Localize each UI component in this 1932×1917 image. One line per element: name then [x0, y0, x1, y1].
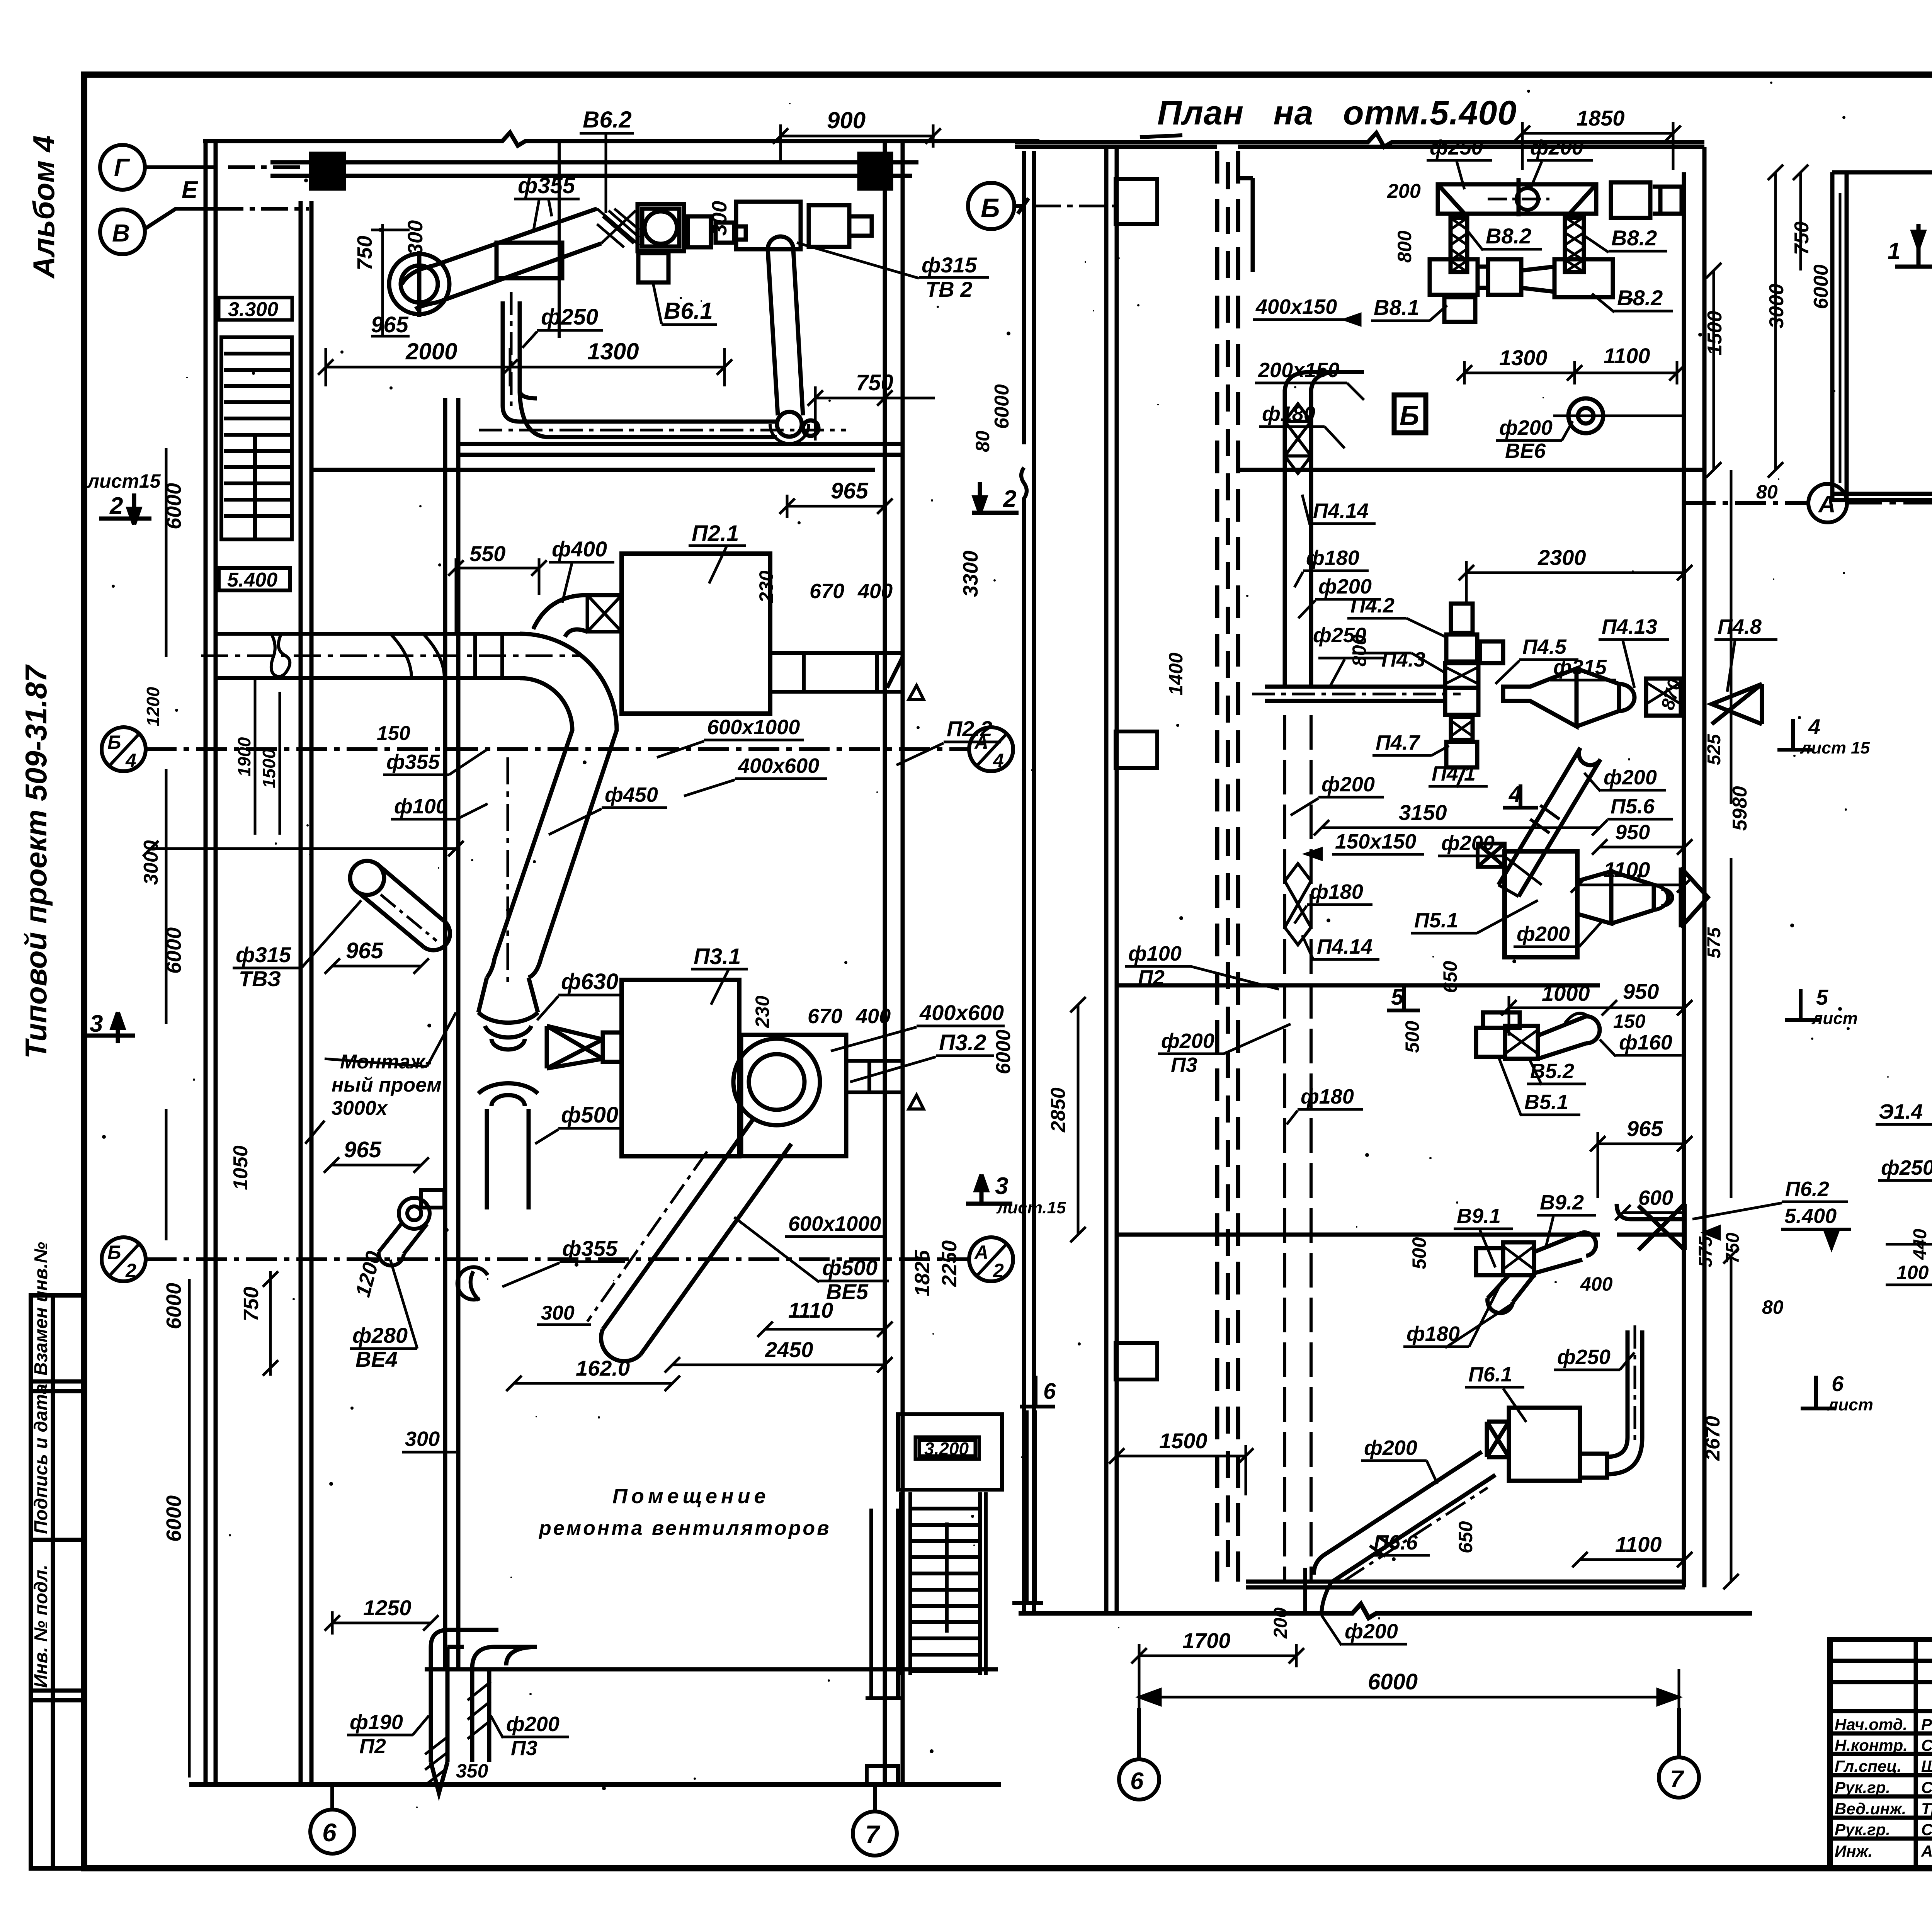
svg-text:В6.2: В6.2 — [583, 107, 632, 133]
small fan f355 crossed — [457, 1267, 488, 1300]
svg-text:2: 2 — [993, 1260, 1004, 1281]
left stamp strip boxes — [31, 1295, 84, 1868]
svg-text:150х150: 150х150 — [1335, 830, 1416, 853]
interior walls — [1238, 468, 1704, 472]
svg-text:ф280: ф280 — [352, 1323, 408, 1347]
duct segment П3 east to wall — [846, 1061, 923, 1109]
column Г2 — [859, 154, 891, 189]
svg-text:П4.7: П4.7 — [1376, 731, 1421, 754]
svg-text:Гл.спец.: Гл.спец. — [1835, 1757, 1901, 1775]
flexible connector crosshatch — [597, 209, 639, 247]
svg-text:6: 6 — [1043, 1379, 1056, 1404]
elevation box 5.400 — [219, 568, 290, 590]
riser П3 — [468, 1647, 537, 1762]
svg-text:ВЕ4: ВЕ4 — [355, 1347, 398, 1371]
svg-text:400: 400 — [855, 1005, 891, 1028]
svg-text:ф400: ф400 — [552, 537, 607, 561]
svg-text:В6.1: В6.1 — [664, 298, 713, 324]
svg-text:162.0: 162.0 — [576, 1356, 630, 1380]
П3.2 fan — [587, 1035, 846, 1361]
svg-text:ф200: ф200 — [1517, 922, 1570, 946]
svg-text:Б: Б — [981, 193, 1000, 223]
svg-text:3.200: 3.200 — [924, 1439, 969, 1459]
diagonal duct f200 — [1314, 1452, 1495, 1582]
svg-text:6000: 6000 — [162, 1283, 185, 1329]
main title block outer — [1830, 1640, 1932, 1868]
svg-text:ф160: ф160 — [1619, 1031, 1672, 1054]
svg-text:Типовой проект 509-31.87: Типовой проект 509-31.87 — [19, 664, 53, 1059]
П3.1 unit — [622, 980, 739, 1156]
svg-text:Вед.инж.: Вед.инж. — [1835, 1800, 1906, 1818]
corner detail — [1611, 182, 1650, 218]
left edge — [1845, 172, 1849, 500]
svg-text:П6.1: П6.1 — [1468, 1363, 1512, 1386]
svg-text:2300: 2300 — [1537, 545, 1586, 570]
svg-text:4: 4 — [1808, 714, 1820, 739]
svg-text:400х600: 400х600 — [738, 754, 819, 777]
svg-text:800: 800 — [1394, 230, 1415, 263]
svg-text:лист.15: лист.15 — [996, 1198, 1066, 1217]
svg-text:ф250: ф250 — [1881, 1156, 1932, 1179]
room wall — [425, 1667, 998, 1672]
svg-text:ф250: ф250 — [1557, 1345, 1611, 1369]
П6.2 funnel — [1617, 1204, 1719, 1250]
svg-text:ф450: ф450 — [605, 783, 658, 806]
corridor dashed wall — [1215, 151, 1219, 1582]
svg-text:ТВ 2: ТВ 2 — [925, 277, 972, 301]
svg-text:ф180: ф180 — [1306, 546, 1359, 570]
П5.6 diagonal duct — [1498, 748, 1600, 896]
gallery wall between buildings — [1021, 151, 1034, 1613]
svg-text:2250: 2250 — [938, 1240, 961, 1287]
column Г1 — [311, 154, 344, 189]
svg-text:ф250: ф250 — [1430, 136, 1483, 159]
svg-text:575: 575 — [1704, 927, 1725, 958]
П4.14 hatch — [1285, 421, 1311, 456]
axis А/2 bubble — [969, 1237, 1013, 1281]
svg-text:ф315: ф315 — [236, 942, 291, 967]
svg-text:2: 2 — [125, 1260, 136, 1281]
svg-text:750: 750 — [353, 236, 376, 270]
svg-text:ф200: ф200 — [1364, 1436, 1417, 1459]
svg-text:6000: 6000 — [162, 1495, 185, 1542]
svg-text:ф250: ф250 — [541, 304, 598, 330]
intake funnel — [1487, 1422, 1509, 1457]
axis Б/2 bubble — [102, 1237, 146, 1281]
svg-text:350: 350 — [456, 1760, 488, 1782]
svg-text:6000: 6000 — [991, 384, 1013, 429]
svg-text:7: 7 — [865, 1820, 881, 1849]
svg-text:Помещение: Помещение — [612, 1485, 770, 1508]
svg-text:965: 965 — [346, 938, 384, 963]
svg-text:Слободяник: Слободяник — [1921, 1778, 1932, 1796]
svg-text:Слободяник: Слободяник — [1921, 1820, 1932, 1839]
svg-text:300: 300 — [404, 220, 427, 255]
svg-text:П4.1: П4.1 — [1432, 762, 1476, 785]
svg-text:П2.1: П2.1 — [692, 521, 739, 546]
section marks 1 — [1895, 224, 1932, 267]
svg-text:Б: Б — [107, 1242, 121, 1263]
ВЕ6 fan — [1553, 398, 1685, 433]
svg-text:Б: Б — [1400, 400, 1419, 431]
svg-text:П3: П3 — [511, 1737, 537, 1760]
svg-text:6000: 6000 — [992, 1029, 1015, 1074]
svg-text:80: 80 — [1762, 1296, 1784, 1318]
svg-text:1000: 1000 — [1542, 981, 1590, 1005]
svg-text:150: 150 — [1613, 1010, 1646, 1032]
svg-text:965: 965 — [344, 1137, 382, 1162]
svg-text:650: 650 — [1455, 1521, 1476, 1553]
svg-text:В8.2: В8.2 — [1611, 226, 1657, 250]
LEFT-STRIP — [31, 1295, 84, 1868]
wall piers open — [1116, 179, 1157, 1379]
svg-text:1110: 1110 — [788, 1298, 833, 1322]
svg-text:670: 670 — [810, 580, 844, 603]
svg-text:600: 600 — [1638, 1186, 1673, 1209]
top wall — [1832, 163, 1932, 177]
bubble 6 left plan — [310, 1810, 354, 1854]
svg-text:230: 230 — [752, 995, 773, 1028]
duct f250 riser — [479, 292, 846, 437]
wall under duct row — [457, 442, 903, 446]
svg-text:1050: 1050 — [230, 1145, 252, 1190]
svg-text:1700: 1700 — [1182, 1628, 1231, 1653]
svg-text:П2: П2 — [359, 1735, 386, 1758]
long supply duct west — [201, 634, 580, 678]
svg-text:3000: 3000 — [140, 840, 162, 885]
stairwell top-left — [221, 337, 292, 539]
axis А/4 bubble — [969, 727, 1013, 771]
right wall — [1682, 172, 1686, 1587]
П5.1 unit — [1505, 851, 1577, 957]
svg-text:5.400: 5.400 — [1784, 1204, 1837, 1228]
bell f630 — [478, 978, 538, 1012]
svg-text:750: 750 — [856, 370, 893, 395]
svg-text:3000х: 3000х — [332, 1097, 388, 1119]
svg-text:100: 100 — [1896, 1262, 1929, 1283]
svg-text:Взамен инв.№: Взамен инв.№ — [31, 1242, 51, 1376]
TV2 fan assembly — [736, 202, 872, 444]
svg-text:Б: Б — [107, 731, 121, 753]
TITLEBLOCK — [1830, 1640, 1932, 1868]
svg-text:600х1000: 600х1000 — [707, 716, 800, 739]
svg-text:ф355: ф355 — [518, 173, 575, 198]
bubble 7 left plan — [853, 1812, 897, 1856]
svg-text:лист: лист — [1827, 1395, 1873, 1414]
svg-text:ф100: ф100 — [394, 795, 447, 818]
svg-text:П2: П2 — [1138, 966, 1165, 989]
B8 riser right hatched — [1565, 218, 1584, 272]
svg-text:80: 80 — [972, 430, 993, 452]
B8 fan row left — [1430, 259, 1478, 295]
svg-text:3.300: 3.300 — [228, 298, 278, 321]
svg-text:2: 2 — [109, 493, 123, 519]
svg-text:1400: 1400 — [1165, 653, 1187, 696]
stairs bottom-right — [866, 1410, 1043, 1698]
TV3 duct diagonal — [350, 861, 450, 950]
svg-text:ф500: ф500 — [822, 1255, 878, 1280]
left outer wall — [204, 141, 208, 1784]
svg-text:В5.2: В5.2 — [1530, 1060, 1574, 1083]
B8 riser left hatched — [1451, 218, 1467, 272]
svg-text:План на отм.5.400: План на отм.5.400 — [1157, 94, 1517, 132]
svg-text:1300: 1300 — [587, 338, 639, 364]
transition to f315 right — [1503, 668, 1577, 726]
svg-text:ф200: ф200 — [1530, 136, 1583, 159]
svg-text:6000: 6000 — [1368, 1669, 1418, 1694]
svg-text:965: 965 — [831, 478, 869, 503]
fan intake circle f355 — [401, 265, 438, 303]
svg-text:ный проем: ный проем — [332, 1074, 442, 1096]
svg-text:4: 4 — [125, 750, 136, 771]
svg-text:750: 750 — [240, 1287, 263, 1322]
svg-text:400х600: 400х600 — [919, 1000, 1004, 1025]
svg-text:1100: 1100 — [1615, 1532, 1662, 1556]
svg-text:600х1000: 600х1000 — [788, 1212, 881, 1235]
svg-text:В9.1: В9.1 — [1457, 1204, 1501, 1228]
B8 top duct — [1430, 182, 1682, 322]
bottom walls — [1246, 1580, 1685, 1584]
svg-text:80: 80 — [1756, 481, 1778, 503]
svg-text:3: 3 — [995, 1173, 1008, 1199]
svg-text:ТВЗ: ТВЗ — [239, 966, 281, 991]
elevation box 3.300 — [219, 298, 292, 320]
svg-text:ф315: ф315 — [922, 253, 977, 277]
svg-text:ф180: ф180 — [1310, 880, 1363, 903]
svg-text:А: А — [974, 1242, 988, 1263]
svg-text:ф200: ф200 — [1604, 766, 1657, 789]
svg-text:6000: 6000 — [1810, 264, 1832, 309]
svg-text:ф200: ф200 — [1499, 416, 1553, 439]
axis В bubble — [100, 209, 145, 254]
svg-text:7: 7 — [1670, 1766, 1684, 1793]
svg-text:ф630: ф630 — [561, 969, 618, 994]
svg-text:Э1.4: Э1.4 — [1879, 1100, 1923, 1123]
В6.1 box — [638, 253, 668, 282]
svg-text:П6.2: П6.2 — [1785, 1177, 1829, 1201]
svg-text:Нач.отд.: Нач.отд. — [1835, 1715, 1907, 1733]
bottom wall — [189, 1782, 1001, 1787]
svg-text:200: 200 — [1387, 180, 1421, 202]
bottom wall — [1832, 492, 1932, 496]
svg-text:П6.6: П6.6 — [1374, 1531, 1418, 1554]
top wall — [1015, 133, 1704, 147]
svg-text:П4.14: П4.14 — [1313, 499, 1369, 522]
VE4 fan small — [379, 1190, 444, 1266]
В5 cluster — [1476, 1012, 1600, 1059]
svg-text:575: 575 — [1696, 1236, 1716, 1267]
svg-text:П3.1: П3.1 — [694, 944, 741, 969]
inner hall wall — [443, 398, 447, 1669]
hanger line — [558, 141, 561, 338]
svg-text:лист15: лист15 — [87, 470, 161, 492]
svg-text:В8.2: В8.2 — [1486, 224, 1531, 248]
svg-text:300: 300 — [708, 201, 731, 236]
svg-text:ф200: ф200 — [1345, 1620, 1398, 1643]
П4.8 wall funnel — [1712, 684, 1762, 724]
svg-text:ф200: ф200 — [1441, 832, 1495, 855]
svg-text:П4.3: П4.3 — [1381, 648, 1425, 671]
svg-text:650: 650 — [1439, 961, 1461, 993]
П2.1 unit — [622, 554, 770, 714]
svg-text:950: 950 — [1623, 979, 1659, 1004]
svg-text:ф500: ф500 — [561, 1102, 618, 1128]
svg-text:2850: 2850 — [1047, 1087, 1070, 1133]
signature table — [1914, 1640, 1918, 1868]
axis Г bubble — [100, 145, 145, 190]
svg-text:П4.13: П4.13 — [1602, 615, 1657, 638]
svg-text:П2.2: П2.2 — [947, 716, 992, 741]
svg-text:965: 965 — [371, 312, 409, 337]
svg-text:Инв. № подл.: Инв. № подл. — [31, 1565, 51, 1688]
svg-text:400х150: 400х150 — [1255, 295, 1337, 318]
П4 long risers down — [1285, 715, 1311, 1582]
AXES-LEFT — [100, 145, 1116, 1856]
svg-text:1: 1 — [1888, 238, 1900, 264]
П6.1 right elbow to riser — [1580, 1454, 1607, 1478]
П5.1 right funnel — [1577, 867, 1708, 927]
svg-text:ф200: ф200 — [506, 1713, 560, 1736]
svg-text:1500: 1500 — [1159, 1429, 1207, 1453]
svg-text:2670: 2670 — [1702, 1416, 1724, 1461]
svg-text:2000: 2000 — [405, 338, 457, 364]
svg-text:750: 750 — [1723, 1233, 1743, 1264]
axis Б bubble — [968, 183, 1014, 229]
svg-text:Розенталь: Розенталь — [1921, 1715, 1932, 1733]
funnel to П3.1 — [547, 1026, 603, 1068]
svg-text:ф315: ф315 — [1553, 656, 1607, 679]
svg-text:Рук.гр.: Рук.гр. — [1835, 1820, 1890, 1839]
svg-text:900: 900 — [827, 107, 866, 133]
svg-text:П5.6: П5.6 — [1611, 795, 1655, 818]
svg-text:П4.14: П4.14 — [1317, 935, 1372, 958]
svg-text:500: 500 — [1401, 1021, 1423, 1053]
Б sign box — [1394, 395, 1426, 433]
П6.1 unit — [1509, 1408, 1580, 1481]
right wall — [883, 141, 887, 1784]
В9 cluster — [1476, 1233, 1596, 1313]
svg-text:3: 3 — [90, 1010, 103, 1037]
svg-text:П3: П3 — [1171, 1053, 1197, 1077]
svg-text:П3.2: П3.2 — [939, 1030, 986, 1055]
svg-text:1825: 1825 — [911, 1250, 934, 1296]
svg-text:ремонта вентиляторов: ремонта вентиляторов — [538, 1517, 831, 1539]
svg-text:3300: 3300 — [959, 551, 982, 597]
svg-text:ф355: ф355 — [386, 750, 440, 774]
svg-text:5: 5 — [1816, 985, 1828, 1009]
svg-text:1300: 1300 — [1499, 345, 1548, 370]
svg-text:В: В — [112, 219, 130, 247]
axis line А to right plan — [1847, 502, 1932, 505]
signature names — [1835, 1715, 1932, 1860]
riser П2 — [425, 1630, 498, 1793]
svg-text:6: 6 — [1130, 1768, 1144, 1795]
duct segment П2 east to wall — [770, 653, 923, 699]
svg-text:Слободяник: Слободяник — [1921, 1736, 1932, 1754]
duct to П2.1 with funnels — [478, 595, 622, 1209]
FAN-V6 cluster — [389, 204, 746, 317]
svg-text:В8.2: В8.2 — [1617, 286, 1663, 310]
svg-text:6: 6 — [1832, 1371, 1844, 1396]
svg-text:Г: Г — [114, 153, 130, 181]
svg-text:ф200: ф200 — [1321, 773, 1375, 796]
intake duct diagonal — [433, 209, 601, 302]
motor rects — [688, 216, 711, 247]
svg-text:1200: 1200 — [143, 687, 163, 726]
svg-text:400: 400 — [857, 580, 893, 603]
svg-text:500: 500 — [1408, 1237, 1430, 1269]
long dim line mid — [143, 841, 464, 856]
svg-text:950: 950 — [1615, 821, 1650, 844]
upper wall band — [270, 160, 918, 165]
left wall — [1104, 147, 1109, 1613]
svg-text:1850: 1850 — [1577, 106, 1625, 130]
fan unit В6.2 — [638, 204, 684, 251]
svg-text:ф180: ф180 — [1301, 1085, 1354, 1108]
svg-text:Рук.гр.: Рук.гр. — [1835, 1778, 1890, 1796]
svg-text:ф100: ф100 — [1128, 942, 1182, 965]
svg-text:6: 6 — [322, 1818, 337, 1847]
svg-text:1500: 1500 — [259, 748, 279, 788]
svg-text:П4.5: П4.5 — [1522, 635, 1567, 658]
svg-text:ф355: ф355 — [562, 1236, 618, 1260]
svg-text:ВЕ6: ВЕ6 — [1505, 439, 1546, 463]
svg-text:1100: 1100 — [1604, 857, 1650, 882]
svg-text:1900: 1900 — [234, 737, 254, 777]
svg-text:4: 4 — [993, 750, 1004, 771]
svg-text:150: 150 — [377, 722, 410, 745]
svg-text:Альбом 4: Альбом 4 — [27, 135, 61, 279]
RIGHT-PLAN — [1832, 163, 1932, 510]
svg-text:ф200: ф200 — [1318, 575, 1372, 598]
svg-text:П5.1: П5.1 — [1414, 909, 1458, 932]
svg-text:П4.8: П4.8 — [1718, 615, 1762, 638]
svg-text:200: 200 — [1270, 1607, 1291, 1639]
П4 cross assembly — [1446, 634, 1477, 662]
svg-text:Шапильский: Шапильский — [1921, 1757, 1932, 1775]
bell f500 below — [478, 1083, 538, 1094]
LEFT-PLAN — [189, 133, 1039, 1784]
CENTER-PLAN — [1015, 133, 1752, 1618]
svg-text:Инж.: Инж. — [1835, 1842, 1872, 1860]
svg-text:965: 965 — [1627, 1116, 1663, 1141]
duct from top room down — [1285, 372, 1364, 688]
svg-text:800: 800 — [1349, 634, 1370, 667]
svg-text:1100: 1100 — [1604, 344, 1650, 368]
svg-text:3150: 3150 — [1399, 800, 1447, 825]
svg-text:Подпись и дата: Подпись и дата — [31, 1384, 51, 1534]
svg-text:400: 400 — [1580, 1273, 1613, 1295]
axis Б/4 bubble — [102, 727, 146, 771]
elevation box 3.200 — [915, 1437, 979, 1459]
top outer wall — [203, 133, 1039, 146]
svg-text:В5.1: В5.1 — [1524, 1090, 1568, 1114]
svg-text:300: 300 — [405, 1427, 440, 1451]
equipment rect — [497, 243, 562, 278]
svg-text:ф200: ф200 — [1161, 1029, 1214, 1053]
svg-text:2450: 2450 — [765, 1337, 813, 1362]
svg-text:2: 2 — [1003, 486, 1016, 512]
svg-text:670: 670 — [808, 1005, 842, 1028]
svg-text:Н.контр.: Н.контр. — [1835, 1736, 1908, 1754]
svg-text:5.400: 5.400 — [227, 569, 277, 591]
svg-text:В9.2: В9.2 — [1540, 1191, 1584, 1214]
svg-text:ф190: ф190 — [350, 1711, 403, 1734]
svg-text:300: 300 — [541, 1302, 575, 1324]
П4 horizontal duct f250 — [1252, 604, 1762, 767]
svg-text:525: 525 — [1704, 734, 1725, 765]
svg-text:230: 230 — [755, 570, 777, 603]
